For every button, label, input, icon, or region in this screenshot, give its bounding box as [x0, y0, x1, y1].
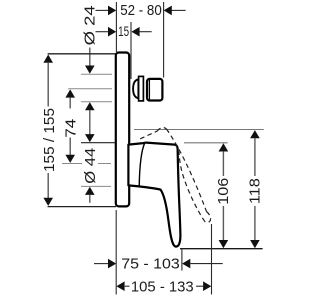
wire extension line left wall reference top [115, 2, 117, 52]
wire extension line lever tip solid [181, 249, 183, 270]
reference line handle axis gray left [62, 163, 82, 165]
reference line handle axis gray right [98, 163, 111, 165]
knob neck cone [133, 79, 138, 98]
svg-text:106: 106 [215, 178, 232, 205]
dimension 105 - 133 bottom row [125, 285, 130, 287]
reference line knob top gray [81, 73, 112, 75]
wire extension line lever tip dashed [211, 224, 213, 295]
wire extension line knob front face [163, 2, 165, 78]
svg-text:118: 118 [247, 178, 264, 204]
dimension 75 - 103 bottom row [94, 263, 223, 265]
dimension 74 column [65, 89, 75, 97]
svg-text:105 - 133: 105 - 133 [131, 278, 194, 295]
handle lever solid outline [128, 143, 180, 247]
handle cone-base boundary inner line [139, 143, 145, 186]
reference line plate bottom to 155 column [48, 206, 116, 208]
reference line sleeve top extended left (Ø44 top) [81, 142, 129, 144]
dimension 155 / 155 column [43, 55, 53, 63]
arrow down to knob top line [85, 66, 95, 74]
wall plate side view [116, 53, 129, 207]
arrow up to sleeve bottom line (Ø44 bottom) [85, 187, 95, 195]
reference line knob axis gray [68, 88, 112, 90]
wire extension line sleeve front for 15 [130, 22, 132, 79]
svg-text:52 - 80: 52 - 80 [120, 2, 162, 19]
reference line bottom of handle black [180, 248, 263, 250]
dimension leader Ø24 column [89, 48, 91, 66]
knob front inner line [148, 80, 150, 100]
reference line sleeve bottom gray [81, 185, 111, 187]
dimension 52 - 80 top row [96, 9, 186, 11]
knob main cylinder [147, 79, 162, 101]
reference line plate top to 155 column [48, 53, 116, 55]
reference line 118 top gray [134, 129, 264, 131]
reference line 106 top gray right segment [184, 142, 228, 144]
arrow up to knob bottom line [85, 102, 95, 110]
dimension 15 second row [96, 31, 152, 33]
svg-text:155 / 155: 155 / 155 [41, 108, 58, 172]
dashed lever alternate position [140, 128, 210, 223]
wire extension line wall reference bottom [115, 210, 117, 295]
reference line knob bottom gray [81, 101, 112, 103]
dimension 106 column [219, 143, 229, 151]
dimension 118 column [250, 130, 260, 138]
svg-text:Ø 24: Ø 24 [82, 5, 99, 45]
svg-text:Ø 44: Ø 44 [82, 148, 99, 184]
knob ring [139, 76, 144, 101]
svg-text:75 - 103: 75 - 103 [121, 255, 180, 272]
svg-text:15: 15 [118, 24, 129, 39]
svg-text:74: 74 [63, 119, 80, 138]
arrow down to sleeve top line (Ø44 top) [85, 134, 95, 142]
